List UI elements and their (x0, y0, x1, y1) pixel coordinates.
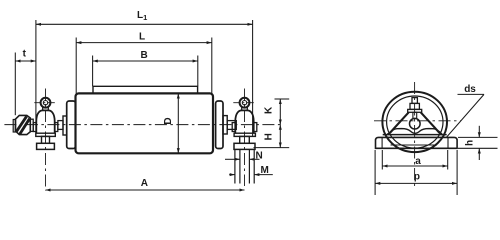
left bearing neck (43, 107, 49, 110)
svg-text:B: B (141, 50, 148, 61)
left cup horizontal centerline (34, 102, 57, 104)
left bearing base (37, 143, 55, 149)
washer at block right (30, 119, 33, 131)
svg-text:p: p (414, 172, 420, 183)
base pad line left (381, 137, 383, 148)
dimension B (93, 56, 198, 87)
svg-text:H: H (264, 133, 275, 140)
left shaft segment (58, 121, 63, 130)
bearing bracket right arm (421, 112, 442, 134)
cap bolt top (412, 98, 417, 104)
leader ds diagonal (447, 94, 484, 137)
right hub (216, 101, 223, 149)
bearing bottom line (383, 134, 447, 136)
hatched shaft block (threaded end) (15, 115, 30, 134)
svg-text:M: M (261, 165, 269, 176)
svg-text:K: K (264, 106, 275, 114)
right foot slot line N-left (239, 149, 241, 183)
dimension H (254, 125, 290, 148)
right foot slot line M-left (234, 149, 236, 183)
svg-text:A: A (141, 178, 148, 189)
right foot slot line N-right (248, 149, 250, 183)
drum shell (76, 93, 214, 153)
svg-text:D: D (163, 117, 174, 124)
drum outer circle (382, 92, 447, 152)
lagging band on drum top (93, 86, 198, 93)
hatch stripe 1 (17, 116, 27, 131)
dimension M (229, 174, 273, 176)
right bearing vertical centerline (244, 89, 246, 187)
dimension a (382, 150, 447, 170)
dimension h (458, 126, 498, 160)
end view horizontal centerline (374, 120, 461, 122)
left hub (67, 101, 76, 149)
dimension L (76, 38, 212, 94)
svg-text:L: L (139, 32, 145, 43)
base recess line (391, 144, 438, 146)
right bearing base (234, 143, 255, 149)
right bearing ring (223, 116, 227, 134)
left bearing vertical centerline (45, 89, 47, 191)
left bearing right ear (55, 123, 58, 132)
right bearing left ear (232, 123, 235, 132)
dimension L1 (36, 20, 253, 136)
cap bolt body (410, 103, 419, 109)
dimension D (177, 93, 179, 153)
leader ds underline (458, 93, 485, 95)
dimension A (46, 189, 245, 191)
bearing bracket left arm (387, 112, 408, 134)
left bearing dome body (36, 110, 54, 133)
svg-text:N: N (256, 150, 263, 161)
bearing U1 left: grease cup (41, 98, 51, 108)
svg-text:t: t (23, 49, 27, 60)
svg-text:L1: L1 (137, 10, 147, 22)
dimension K (275, 99, 290, 125)
drum inner circle (387, 96, 443, 148)
svg-text:a: a (415, 156, 421, 167)
right cup horizontal centerline (233, 102, 256, 104)
right bearing flange (234, 133, 255, 136)
grease bulb (410, 118, 421, 129)
end view vertical centerline (414, 82, 416, 188)
wire: main shaft axis centerline (4, 124, 283, 126)
svg-text:ds: ds (464, 84, 476, 95)
dimension t (15, 53, 36, 116)
right shaft segment (227, 121, 236, 130)
right bearing right ear (254, 123, 257, 132)
svg-text:h: h (464, 140, 475, 146)
left bearing ring (63, 116, 67, 135)
cap bolt flange (408, 109, 422, 112)
grease bulb stem (413, 112, 417, 118)
right bearing stem (240, 136, 250, 143)
right bearing neck (242, 107, 248, 110)
dimension p (375, 150, 457, 195)
dimension N (225, 158, 260, 160)
casting wave line (388, 129, 442, 135)
shaft end bar far left (13, 120, 15, 133)
right bearing dome body (235, 110, 253, 133)
bearing U2 right: grease cup (240, 98, 250, 108)
base plate (376, 137, 458, 148)
left bearing stem (42, 136, 50, 143)
left bearing left ear (33, 123, 36, 132)
base pad line right (447, 137, 449, 148)
left bearing flange (36, 133, 56, 136)
right foot slot line M-right (253, 149, 255, 183)
hatch stripe 2 (20, 119, 30, 135)
